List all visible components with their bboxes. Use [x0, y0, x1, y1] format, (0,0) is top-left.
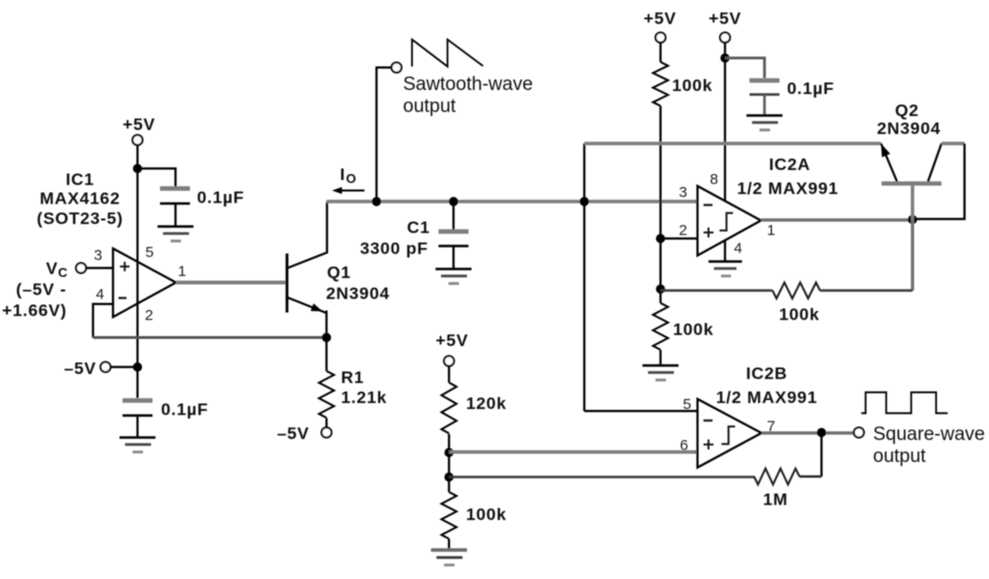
node: IC2A output junction	[908, 215, 917, 224]
wire rail down to IC2B pin 5	[584, 410, 697, 412]
capacitor 0.1uF (-5V bypass)	[123, 400, 209, 419]
wire junction to bypass cap	[138, 169, 176, 187]
svg-text:6: 6	[680, 437, 688, 454]
transistor Q2 base bar	[882, 181, 942, 185]
svg-text:IC1: IC1	[66, 170, 95, 189]
svg-text:100k: 100k	[673, 320, 714, 339]
node: IC2B output junction	[817, 428, 826, 437]
wire C1 tap down	[452, 202, 454, 230]
wire +5V to 120k	[448, 366, 450, 383]
svg-text:C: C	[58, 265, 68, 280]
node: divider tap to 1M	[444, 472, 453, 481]
svg-text:–5V: –5V	[277, 424, 309, 443]
wire pin2 node to IC2A + input	[661, 237, 698, 239]
capacitor C1 3300pF	[360, 218, 469, 258]
wire 100k to ground	[448, 539, 450, 550]
svg-text:output: output	[873, 446, 927, 467]
svg-text:Q1: Q1	[327, 263, 351, 282]
terminal VC input	[46, 259, 86, 280]
ground (-5V bypass)	[120, 438, 156, 453]
ground (C1)	[436, 269, 472, 284]
terminal -5V (IC1 supply)	[64, 359, 111, 378]
svg-text:1M: 1M	[763, 490, 788, 509]
wire cap to ground	[174, 204, 176, 227]
label Q1 2N3904	[326, 263, 390, 303]
wire -5V junction to cap	[136, 367, 138, 398]
plus sign (IC2A +)	[704, 228, 714, 238]
svg-text:O: O	[346, 171, 356, 186]
node: -5V junction	[133, 362, 142, 371]
wire junction to bypass cap	[725, 58, 765, 78]
svg-text:MAX4162: MAX4162	[40, 189, 121, 208]
svg-text:1: 1	[178, 263, 186, 280]
sawtooth waveform icon	[412, 40, 483, 67]
resistor R1 1.21k	[319, 371, 334, 418]
svg-text:0.1µF: 0.1µF	[787, 79, 834, 98]
svg-text:+5V: +5V	[123, 115, 156, 134]
Q1 collector	[288, 202, 328, 269]
resistor 100k (lower divider)	[653, 303, 668, 350]
svg-text:100k: 100k	[779, 305, 820, 324]
svg-text:R1: R1	[341, 368, 364, 387]
wire IC1 output to Q1 base	[176, 281, 287, 285]
svg-text:C1: C1	[407, 218, 430, 237]
wire Q2 collector to output corner	[942, 142, 965, 145]
op-amp U1 IC1 triangle	[113, 249, 176, 318]
label IC2B 1/2 MAX991	[716, 364, 818, 407]
svg-text:2N3904: 2N3904	[326, 284, 390, 303]
label Square-wave output	[873, 424, 985, 467]
wire sawtooth tap up to output terminal	[377, 68, 392, 202]
svg-text:(–5V -: (–5V -	[16, 280, 67, 299]
wire to node above resistor	[659, 289, 661, 303]
svg-text:120k: 120k	[466, 394, 507, 413]
hysteresis symbol IC2B	[722, 427, 736, 445]
terminal +5V (100k pullup)	[644, 9, 677, 43]
svg-text:2: 2	[145, 307, 153, 324]
svg-text:3: 3	[94, 247, 102, 264]
wire output node down to 1M	[820, 433, 822, 477]
svg-text:I: I	[340, 165, 345, 184]
svg-text:3300 pF: 3300 pF	[360, 239, 428, 258]
svg-text:V: V	[46, 259, 58, 278]
label Q2 2N3904	[877, 101, 941, 138]
svg-text:1/2 MAX991: 1/2 MAX991	[737, 179, 839, 198]
hysteresis symbol IC2A	[720, 213, 734, 231]
transistor Q1 base bar	[286, 254, 289, 313]
svg-text:2N3904: 2N3904	[877, 119, 941, 138]
terminal sawtooth output	[392, 63, 402, 73]
wire +5V down to pin 8	[724, 43, 726, 202]
svg-text:2: 2	[679, 222, 687, 239]
plus sign (IC2B +)	[704, 440, 714, 450]
label IO with arrow	[332, 165, 365, 194]
main node wire (Q1 collector to IC2A pin3)	[327, 200, 698, 204]
node: feedback tap	[656, 284, 665, 293]
svg-text:Q2: Q2	[895, 101, 919, 120]
capacitor 0.1uF (IC2A bypass)	[750, 79, 835, 98]
node: +5V bypass junction	[133, 164, 142, 173]
label (-5V - +1.66V)	[2, 280, 67, 320]
terminal +5V (120k divider)	[436, 331, 469, 366]
svg-text:1: 1	[767, 222, 775, 239]
svg-text:+5V: +5V	[436, 331, 469, 350]
node: pin2 divider tap	[656, 234, 665, 243]
svg-text:IC2B: IC2B	[746, 364, 788, 383]
ground (IC1 bypass)	[158, 227, 194, 242]
svg-text:100k: 100k	[466, 505, 507, 524]
feedback wire to 100k resistor	[820, 289, 913, 291]
resistor 100k (top divider)	[653, 62, 668, 106]
resistor 1M (feedback)	[754, 469, 800, 485]
wire IC2A output to node	[761, 218, 913, 221]
terminal +5V (IC1 supply)	[123, 115, 156, 145]
svg-text:1.21k: 1.21k	[341, 388, 387, 407]
terminal -5V (R1)	[277, 424, 332, 443]
resistor 120k	[442, 383, 457, 434]
terminal +5V (IC2A supply)	[709, 9, 742, 43]
svg-text:+5V: +5V	[644, 9, 677, 28]
svg-text:+1.66V): +1.66V)	[2, 301, 67, 320]
square waveform icon	[861, 392, 947, 413]
svg-text:4: 4	[734, 240, 742, 257]
plus sign (IC1 +)	[120, 262, 130, 272]
resistor 100k (lower, divider to ground)	[442, 492, 457, 539]
node: Q1 emitter / feedback junction	[322, 333, 331, 342]
wire cap to ground	[136, 416, 138, 438]
svg-text:3: 3	[679, 184, 687, 201]
label IC2A 1/2 MAX991	[737, 155, 839, 198]
op-amp U2B IC2B triangle	[698, 399, 762, 468]
svg-text:0.1µF: 0.1µF	[197, 188, 244, 207]
ground (IC2A pin4)	[709, 262, 743, 277]
wire Q2 base down to output node	[911, 184, 914, 220]
ground (IC2A bypass)	[747, 116, 783, 131]
pin 4 wire to ground	[724, 241, 726, 262]
Q2 emitter with arrow	[881, 144, 897, 182]
pin 4 stub wire (- input)	[93, 304, 113, 338]
wire top rail to Q2 emitter	[584, 142, 881, 146]
wire R1 to -5V terminal	[325, 418, 327, 428]
wire 120k to divider nodes	[448, 434, 450, 492]
label R1 1.21k	[341, 368, 387, 407]
svg-text:1/2 MAX991: 1/2 MAX991	[716, 388, 818, 407]
svg-text:output: output	[403, 96, 457, 117]
wire +5V to 100k	[659, 43, 661, 63]
svg-text:(SOT23-5): (SOT23-5)	[37, 209, 124, 228]
wire IC2B output	[762, 431, 854, 434]
svg-text:Sawtooth-wave: Sawtooth-wave	[403, 74, 533, 95]
terminal square-wave output	[854, 428, 864, 438]
op-amp U2A IC2A triangle	[698, 186, 762, 256]
svg-text:–5V: –5V	[64, 359, 96, 378]
node: +5V bypass junction	[720, 53, 729, 62]
node: sawtooth tap	[372, 197, 381, 206]
wire cap to ground	[763, 95, 766, 116]
svg-text:5: 5	[145, 244, 153, 261]
svg-text:IC2A: IC2A	[769, 155, 811, 174]
svg-text:5: 5	[683, 396, 691, 413]
node wire: main node up/down rail at x584	[583, 144, 585, 412]
svg-text:100k: 100k	[672, 76, 713, 95]
svg-text:Square-wave: Square-wave	[873, 424, 985, 445]
wire corner down to output node	[913, 144, 965, 220]
node: C1 tap	[449, 197, 458, 206]
wire 100k down to pin2 node	[659, 106, 661, 289]
minus sign (IC1 -)	[119, 297, 127, 299]
label IC1 MAX4162 (SOT23-5)	[37, 170, 124, 228]
svg-text:8: 8	[710, 171, 718, 188]
ground (divider bottom)	[431, 550, 467, 565]
capacitor 0.1uF (IC1 bypass)	[160, 188, 244, 207]
wire +5V down to op-amp pin5/pin2 rail	[136, 145, 138, 367]
wire feedback pin4 to Q1 emitter	[93, 336, 327, 339]
node: main wire to rail junction	[580, 197, 589, 206]
svg-text:+5V: +5V	[709, 9, 742, 28]
label Sawtooth-wave output	[403, 74, 533, 117]
Q1 emitter lead down to feedback node	[325, 311, 327, 372]
resistor 100k (IC2A feedback, horizontal)	[772, 283, 820, 299]
svg-text:0.1µF: 0.1µF	[161, 400, 208, 419]
Q1 emitter with arrow	[288, 298, 327, 314]
minus sign (IC2A -)	[704, 204, 713, 206]
wire output node down to feedback	[911, 220, 914, 291]
wire 100k to pin2 node	[661, 289, 773, 291]
wire divider node to IC2B pin 6	[449, 450, 698, 453]
wire -5V to rail	[111, 366, 138, 368]
svg-text:4: 4	[96, 286, 104, 303]
minus sign (IC2B -)	[704, 419, 713, 421]
pin 3 wire (VC to + input)	[86, 267, 113, 269]
wire divider node to 1M resistor	[449, 476, 755, 478]
node: divider tap to pin 6	[444, 448, 453, 457]
Q2 collector	[928, 144, 942, 182]
wire 100k to ground	[659, 350, 661, 365]
wire C1 to ground	[452, 246, 454, 269]
wire 1M to output leg	[800, 475, 822, 477]
ground (divider)	[643, 366, 679, 381]
